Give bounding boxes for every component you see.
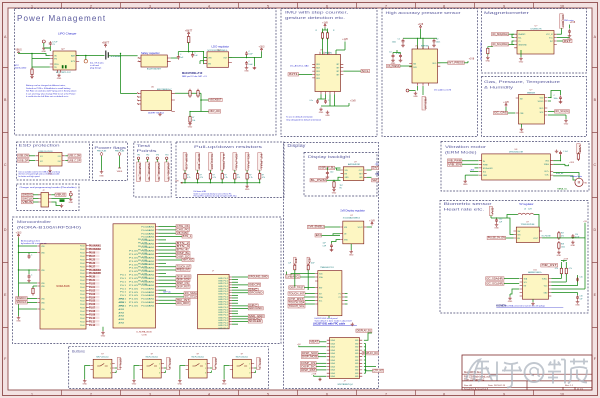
svg-text:I2C address 0x76: I2C address 0x76 bbox=[434, 89, 452, 92]
hier label I2C_SDA(x) bbox=[184, 292, 199, 295]
pins button left bbox=[140, 366, 143, 370]
svg-text:Heart rate etc.: Heart rate etc. bbox=[444, 207, 485, 212]
section box microcontroller bbox=[13, 217, 282, 344]
svg-text:Default on PCB is 500mA due to: Default on PCB is 500mA due to small bat… bbox=[26, 87, 71, 90]
svg-text:P0.04: P0.04 bbox=[80, 253, 84, 255]
chip U7 magnetometer bbox=[517, 31, 554, 55]
svg-text:1: 1 bbox=[31, 4, 33, 8]
svg-text:USB_C_DM: USB_C_DM bbox=[69, 154, 81, 158]
svg-text:SYS: SYS bbox=[71, 61, 76, 63]
wire header bottom bend bbox=[51, 202, 60, 206]
pins hr right bbox=[549, 279, 552, 297]
wire drv out to motor bbox=[553, 176, 575, 180]
svg-text:3: 3 bbox=[149, 392, 151, 396]
svg-text:I2C_GAS: I2C_GAS bbox=[494, 111, 507, 115]
wire gauge down bbox=[188, 42, 190, 51]
svg-text:DRV2605LDGR: DRV2605LDGR bbox=[509, 151, 524, 153]
wire battery to safety cap bbox=[108, 55, 137, 57]
svg-text:GND: GND bbox=[519, 132, 524, 134]
svg-text:9: 9 bbox=[503, 4, 505, 8]
chip J2 display FPC connector bbox=[330, 338, 360, 379]
ground button S1 bbox=[83, 379, 87, 382]
svg-text:+1V8: +1V8 bbox=[563, 258, 569, 260]
capacitor C6 10uF bbox=[245, 51, 248, 56]
watermark glyph hu bbox=[502, 363, 522, 388]
svg-text:P0.12/A: P0.12/A bbox=[138, 262, 148, 265]
ground esd bbox=[48, 169, 52, 172]
vpill pressure int bbox=[422, 97, 426, 111]
ground imu 1 bbox=[319, 108, 323, 111]
svg-text:SWDIO_TP: SWDIO_TP bbox=[138, 163, 142, 181]
resistor vib top right bbox=[577, 144, 580, 154]
svg-text:4.7k: 4.7k bbox=[555, 268, 558, 270]
svg-text:P1.08: P1.08 bbox=[89, 311, 96, 313]
svg-text:PRG: PRG bbox=[54, 64, 59, 66]
resistor pullup R16 bbox=[259, 170, 261, 174]
svg-text:DNF carrier: DNF carrier bbox=[564, 19, 574, 22]
svg-text:R5: R5 bbox=[340, 187, 342, 189]
svg-text:P0.27: P0.27 bbox=[89, 266, 96, 268]
svg-text:SDA_PULL: SDA_PULL bbox=[234, 154, 238, 170]
hier label GROUND_SWD bbox=[248, 275, 268, 278]
svg-text:C2: C2 bbox=[436, 39, 438, 41]
svg-text:3: 3 bbox=[205, 372, 206, 374]
svg-text:P0.29/AIN5: P0.29/AIN5 bbox=[89, 272, 102, 275]
svg-text:7: 7 bbox=[385, 392, 387, 396]
svg-text:10uF: 10uF bbox=[311, 263, 315, 265]
svg-text:P1.05: P1.05 bbox=[129, 292, 138, 294]
wire mag drdy down bbox=[561, 28, 563, 34]
svg-text:DISP_DC: DISP_DC bbox=[197, 154, 201, 170]
hier label DISP_DC bbox=[301, 365, 317, 368]
pins charger right bbox=[76, 56, 79, 62]
svg-text:P1.05: P1.05 bbox=[129, 302, 138, 304]
wire header right vbus bbox=[51, 194, 55, 196]
svg-text:SCL: SCL bbox=[319, 301, 322, 303]
wire pressure vdd stubs bbox=[417, 38, 419, 49]
hier label esd right 2 bbox=[65, 160, 68, 162]
hier label HR_INT bbox=[176, 298, 190, 301]
testpoint TP near charger bbox=[42, 40, 45, 43]
svg-text:P1.01: P1.01 bbox=[89, 287, 96, 289]
svg-text:AIN3: AIN3 bbox=[119, 322, 125, 325]
svg-text:GND P0.2: GND P0.2 bbox=[218, 302, 228, 304]
svg-text:P0.04: P0.04 bbox=[80, 259, 84, 261]
svg-text:P0.12/A: P0.12/A bbox=[138, 249, 148, 252]
svg-text:P0.04: P0.04 bbox=[80, 315, 84, 317]
hier label mag int bbox=[557, 40, 563, 42]
button symbol bbox=[237, 364, 248, 367]
svg-text:1: 1 bbox=[110, 363, 111, 365]
svg-text:P0.12/A: P0.12/A bbox=[138, 252, 148, 255]
svg-text:4.7k: 4.7k bbox=[262, 177, 265, 179]
battery gauge element bbox=[187, 37, 190, 43]
wire gas right loop top bbox=[548, 91, 561, 98]
capacitor C14 bio bbox=[571, 234, 574, 239]
pins hr left bbox=[520, 279, 523, 297]
svg-text:Vibration Motor: Vibration Motor bbox=[570, 175, 583, 178]
svg-text:P0.26: P0.26 bbox=[89, 263, 96, 265]
pins esd bottom bbox=[49, 166, 51, 169]
wire dispreg out bbox=[367, 226, 372, 228]
capacitor C3 1uF bbox=[177, 55, 180, 60]
pins button left bbox=[90, 366, 93, 370]
hier label I2C_SCL bio bbox=[486, 282, 504, 285]
svg-text:GROUND: GROUND bbox=[249, 290, 263, 294]
svg-text:CS_PRESS: CS_PRESS bbox=[387, 64, 399, 68]
svg-text:VIB_PWM: VIB_PWM bbox=[448, 158, 462, 162]
svg-text:AW9364DNR: AW9364DNR bbox=[348, 163, 360, 166]
wire button left down bbox=[134, 366, 140, 380]
hier label PULSELED bbox=[487, 236, 506, 239]
watermark glyph zhi bbox=[476, 362, 497, 382]
svg-text:Battery can be charged at diff: Battery can be charged at different rate… bbox=[26, 84, 66, 87]
capacitor pressure left C4 bbox=[392, 54, 395, 59]
pins button right bbox=[251, 364, 254, 373]
wire pullup drop bbox=[184, 179, 186, 183]
svg-text:P1.05: P1.05 bbox=[89, 301, 96, 303]
hier label fpc VBAT bbox=[309, 340, 319, 343]
resistor backlight R5 bbox=[333, 182, 335, 187]
svg-text:C12: C12 bbox=[499, 219, 502, 221]
chip U11 display regulator bbox=[343, 221, 364, 244]
svg-text:+1V8: +1V8 bbox=[350, 100, 356, 102]
svg-text:8: 8 bbox=[443, 4, 445, 8]
wire debug SND_GND bbox=[232, 315, 248, 317]
svg-text:DISP_MOSI: DISP_MOSI bbox=[302, 355, 317, 359]
svg-text:GND: GND bbox=[101, 336, 106, 338]
svg-text:P0.12/A: P0.12/A bbox=[138, 266, 148, 269]
svg-text:P1.05: P1.05 bbox=[129, 251, 138, 253]
pins gas right bbox=[545, 98, 548, 116]
resistor pullup R14 bbox=[234, 170, 236, 174]
hier label CHG_OK bbox=[176, 225, 190, 228]
svg-text:P0.04/AIN1: P0.04/AIN1 bbox=[141, 294, 154, 297]
svg-text:D: D bbox=[593, 228, 596, 232]
svg-text:10: 10 bbox=[560, 4, 564, 8]
hier label GROUND bbox=[248, 307, 263, 310]
wire rail branch down to buck bbox=[120, 54, 122, 94]
ground button S4 bbox=[222, 379, 226, 382]
svg-text:GND: GND bbox=[245, 189, 250, 191]
svg-text:SDO: SDO bbox=[539, 108, 543, 110]
svg-text:NRF pin DV die CAT + LV: NRF pin DV die CAT + LV bbox=[182, 75, 208, 78]
svg-text:C1: C1 bbox=[518, 41, 520, 43]
power +1V8 imu top bbox=[324, 24, 326, 28]
svg-text:SW-Pushbutton: SW-Pushbutton bbox=[236, 355, 249, 358]
svg-text:To use in default orientation: To use in default orientation bbox=[286, 116, 314, 119]
wire button right bbox=[115, 367, 118, 369]
svg-text:P1.05: P1.05 bbox=[129, 261, 138, 263]
ground button S3 bbox=[178, 379, 182, 382]
pins pressure left bbox=[409, 64, 412, 67]
svg-text:GND P0.2: GND P0.2 bbox=[218, 304, 228, 306]
hier label DISP_SCK bbox=[302, 352, 319, 355]
ground under NTC bbox=[30, 75, 34, 78]
svg-text:IO3: IO3 bbox=[58, 156, 61, 158]
svg-text:GND: GND bbox=[332, 192, 337, 194]
svg-text:P1.02: P1.02 bbox=[89, 290, 96, 292]
button symbol bbox=[97, 364, 108, 367]
svg-text:P0.04: P0.04 bbox=[80, 294, 84, 296]
svg-text:P0.04: P0.04 bbox=[80, 318, 84, 320]
hier label DISP_MOSI bbox=[302, 355, 319, 358]
wire +5V rail right bbox=[573, 223, 585, 238]
svg-text:5V regulator: 5V regulator bbox=[519, 202, 533, 206]
pins button left bbox=[230, 366, 233, 370]
wire touch vdd from left bbox=[286, 272, 288, 278]
svg-text:CON: CON bbox=[142, 334, 147, 336]
svg-text:4.7k: 4.7k bbox=[224, 177, 227, 179]
svg-text:I2C_ACCEL1_SA0: I2C_ACCEL1_SA0 bbox=[290, 65, 309, 68]
vpill button BTN_2 bbox=[167, 358, 170, 370]
svg-text:(ERM Mode): (ERM Mode) bbox=[445, 150, 477, 155]
svg-text:100n: 100n bbox=[554, 98, 558, 100]
svg-text:AIN3: AIN3 bbox=[119, 315, 125, 318]
svg-text:Power flags: Power flags bbox=[94, 146, 126, 150]
svg-text:LDO regulator: LDO regulator bbox=[212, 45, 230, 49]
capacitor gauge C bbox=[191, 53, 194, 58]
power flag 2 vbus bbox=[118, 167, 121, 169]
title block outline bbox=[462, 355, 592, 390]
svg-text:2: 2 bbox=[249, 368, 250, 370]
hier label DISPLAY_BL bbox=[319, 166, 335, 169]
svg-text:AIN3: AIN3 bbox=[119, 301, 125, 304]
ground C14 bbox=[571, 241, 575, 244]
ground buck bbox=[158, 113, 162, 116]
svg-text:P0.04: P0.04 bbox=[80, 301, 84, 303]
power +3V3 out bbox=[260, 48, 262, 52]
svg-text:P0.1: P0.1 bbox=[120, 295, 126, 297]
pins gas left bbox=[516, 98, 519, 113]
ground backlight R bbox=[332, 188, 336, 191]
svg-text:P1.06: P1.06 bbox=[89, 304, 96, 306]
svg-text:P0.1: P0.1 bbox=[120, 278, 126, 280]
hier label I2C_SCL(x) bbox=[184, 295, 199, 298]
hier label VIB_PWM bbox=[176, 231, 188, 234]
hier label BTN_2 bbox=[176, 241, 190, 244]
svg-text:MAX17048G+T10: MAX17048G+T10 bbox=[182, 72, 203, 75]
svg-text:GND: GND bbox=[82, 384, 87, 386]
section box ESD protection bbox=[17, 142, 90, 180]
wire debug SNDIO bbox=[232, 318, 248, 320]
hier label header VBUS right bbox=[55, 193, 66, 196]
svg-text:2: 2 bbox=[110, 368, 111, 370]
svg-text:GND P0.2: GND P0.2 bbox=[218, 317, 228, 319]
svg-text:VBUS: VBUS bbox=[56, 193, 66, 197]
svg-text:Power Management: Power Management bbox=[17, 14, 106, 23]
svg-text:+1V8: +1V8 bbox=[342, 39, 348, 41]
resistor R1 imu pullup bbox=[321, 33, 323, 38]
svg-text:WS27B888JYQ4: WS27B888JYQ4 bbox=[337, 384, 353, 386]
hier label SNDIO bbox=[248, 317, 261, 320]
hier label fpc right CTP bbox=[366, 370, 373, 372]
wire pullup drop bbox=[259, 179, 261, 183]
svg-text:4: 4 bbox=[208, 4, 210, 8]
svg-text:1V8(ADC): 1V8(ADC) bbox=[286, 274, 299, 278]
capacitor dispreg bbox=[330, 243, 333, 248]
wire bio top bbox=[490, 216, 492, 219]
power +1V8 gas bbox=[505, 103, 507, 107]
svg-text:OUT-: OUT- bbox=[545, 175, 550, 177]
svg-text:6: 6 bbox=[326, 392, 328, 396]
wire touch right pins bbox=[345, 293, 348, 295]
svg-text:Safety capacitor: Safety capacitor bbox=[141, 51, 160, 55]
vpill button BTN_4 bbox=[257, 358, 260, 370]
wire pressure top rail bbox=[403, 37, 437, 39]
wire button right bbox=[164, 367, 167, 369]
svg-text:Gas, Pressure, Temperature: Gas, Pressure, Temperature bbox=[484, 79, 561, 84]
svg-text:P0.12/A: P0.12/A bbox=[138, 283, 148, 286]
wire debug GROUND_SWD bbox=[232, 276, 248, 278]
svg-text:it can and may also change R10: it can and may also change R10 to set a … bbox=[26, 92, 76, 95]
svg-text:C: C bbox=[593, 163, 596, 167]
chip U8 gas BME688 bbox=[519, 95, 545, 125]
svg-text:P0.04/AIN1: P0.04/AIN1 bbox=[141, 301, 154, 304]
svg-text:P0.04: P0.04 bbox=[80, 297, 84, 299]
svg-text:DISPLAY_BL: DISPLAY_BL bbox=[357, 329, 372, 333]
hier label GROUND bbox=[248, 291, 263, 294]
svg-text:1: 1 bbox=[249, 363, 250, 365]
svg-text:ERM_M+: ERM_M+ bbox=[556, 173, 564, 175]
svg-text:1V8 Display regulator: 1V8 Display regulator bbox=[340, 209, 365, 213]
hier label CHG_PG bbox=[176, 228, 190, 231]
svg-text:P0.04: P0.04 bbox=[80, 266, 84, 268]
svg-text:bat, OK if pins: bat, OK if pins bbox=[90, 62, 105, 65]
svg-text:P1.05: P1.05 bbox=[129, 285, 138, 287]
wire backlight en bbox=[327, 179, 341, 181]
svg-text:P0.12/A: P0.12/A bbox=[138, 242, 148, 245]
hier label imu right bbox=[343, 70, 361, 72]
svg-text:P0.1: P0.1 bbox=[120, 288, 126, 290]
svg-text:4.7k: 4.7k bbox=[212, 177, 215, 179]
vpill pullup INT_PULL bbox=[258, 153, 262, 171]
title block row lines bbox=[462, 374, 592, 390]
pins fpc right bbox=[359, 340, 362, 376]
svg-text:P1.05: P1.05 bbox=[129, 288, 138, 290]
svg-text:C15: C15 bbox=[580, 277, 583, 279]
svg-text:0.1u: 0.1u bbox=[310, 100, 314, 102]
capacitor drv right bbox=[559, 151, 562, 156]
svg-text:P0.04/AIN1: P0.04/AIN1 bbox=[141, 298, 154, 301]
svg-text:P0.04: P0.04 bbox=[80, 256, 84, 258]
svg-text:P0.1: P0.1 bbox=[120, 275, 126, 277]
wire nora map DISP_CS bbox=[158, 282, 176, 284]
svg-text:VOUT: VOUT bbox=[533, 238, 538, 240]
hier label DISPLAY_DC bbox=[310, 179, 327, 182]
chip U10 backlight driver bbox=[343, 167, 364, 181]
svg-text:5V: 5V bbox=[491, 208, 495, 215]
svg-text:9: 9 bbox=[503, 392, 505, 396]
svg-text:EN Sda/SCl: EN Sda/SCl bbox=[483, 168, 493, 170]
svg-text:CHG_PROG: CHG_PROG bbox=[222, 154, 226, 170]
ground vib left bbox=[464, 175, 466, 179]
pins nora map right bbox=[156, 227, 159, 304]
svg-text:Chip designed for default orie: Chip designed for default orientation bbox=[286, 118, 322, 121]
frame column ticks bbox=[62, 3, 534, 396]
svg-text:Rev: nRF53 Dev: Rev: nRF53 Dev bbox=[464, 372, 482, 374]
capacitor mcu c2 bbox=[28, 274, 31, 279]
wire button right stub2 bbox=[115, 372, 117, 374]
wire mag left bends bbox=[512, 34, 514, 37]
wire button left down bbox=[224, 366, 230, 380]
svg-text:P0.12/A: P0.12/A bbox=[138, 279, 148, 282]
resistor pullup R10 bbox=[184, 170, 186, 174]
wire nora map PRESS_INT bbox=[158, 269, 176, 271]
pins fpc left bbox=[327, 340, 330, 376]
svg-text:Charger and programming header: Charger and programming header (Placehol… bbox=[20, 186, 78, 189]
svg-text:1: 1 bbox=[31, 392, 33, 396]
watermark glyph cui bbox=[548, 360, 565, 384]
svg-text:1: 1 bbox=[159, 363, 160, 365]
svg-text:+1V8: +1V8 bbox=[311, 373, 317, 375]
capacitor pressure left C3 bbox=[399, 54, 402, 59]
svg-text:4.7k: 4.7k bbox=[569, 268, 572, 270]
vpill button BTN_3 bbox=[212, 358, 215, 370]
svg-text:TOUCH_RST: TOUCH_RST bbox=[210, 154, 214, 170]
capacitor pressure C1 top bbox=[402, 39, 405, 44]
svg-text:GND P0.2: GND P0.2 bbox=[218, 325, 228, 327]
svg-text:P2: P2 bbox=[339, 297, 341, 299]
wire nora map TOUCH_INT bbox=[158, 266, 176, 268]
pins touch left bbox=[315, 274, 318, 305]
svg-text:GND: GND bbox=[571, 245, 576, 247]
hier label BTN_3 bbox=[176, 245, 190, 248]
resistor R8 bbox=[197, 91, 199, 96]
power flag 1 gnd bbox=[100, 170, 104, 173]
svg-text:3: 3 bbox=[159, 372, 160, 374]
svg-text:GND: GND bbox=[519, 62, 524, 64]
ground under charger bbox=[57, 74, 61, 77]
chip U5 buck boost bbox=[141, 91, 172, 111]
resistor pullup R13 bbox=[221, 170, 223, 174]
chip J1 header bbox=[41, 193, 49, 208]
hier label VBAT_ADC bbox=[182, 258, 194, 261]
svg-text:P0.04/AIN1: P0.04/AIN1 bbox=[141, 305, 154, 308]
section box vibration motor bbox=[441, 142, 589, 192]
frame row ticks bbox=[3, 68, 598, 328]
ground mcu caps bbox=[27, 279, 31, 282]
svg-text:Id: 1/1: Id: 1/1 bbox=[577, 389, 584, 391]
pins backlight left bbox=[341, 170, 344, 177]
hier label mag scl bbox=[492, 43, 509, 46]
svg-text:2: 2 bbox=[205, 368, 206, 370]
section box pullup resistors bbox=[176, 142, 284, 198]
svg-text:DISP_TRST: DISP_TRST bbox=[290, 285, 304, 289]
wire fpc bl right top bbox=[364, 333, 372, 340]
svg-text:P0.12/A: P0.12/A bbox=[138, 276, 148, 279]
svg-text:R?: R? bbox=[224, 174, 226, 176]
pins button right bbox=[161, 364, 164, 373]
wire pullup drop bbox=[234, 179, 236, 183]
svg-text:plug design: plug design bbox=[90, 68, 102, 70]
svg-text:M: M bbox=[578, 181, 581, 185]
svg-text:P0.12/A: P0.12/A bbox=[138, 273, 148, 276]
svg-text:NORA-B106: NORA-B106 bbox=[56, 285, 70, 288]
wire nora map BTN_3 bbox=[158, 246, 176, 248]
power label +BATT bbox=[104, 44, 106, 48]
pins header left bbox=[38, 195, 41, 202]
svg-text:TMA5340CT01: TMA5340CT01 bbox=[320, 266, 334, 269]
pins touch right bbox=[342, 294, 345, 305]
svg-text:GND: GND bbox=[486, 60, 491, 62]
svg-text:(NORA-B106/nRF5340): (NORA-B106/nRF5340) bbox=[17, 225, 82, 230]
svg-text:Display backlight: Display backlight bbox=[308, 155, 350, 159]
svg-text:GND: GND bbox=[132, 384, 137, 386]
wire nora map DISP_MOSI bbox=[158, 276, 176, 278]
svg-text:VBAT: VBAT bbox=[310, 340, 319, 344]
hier label VBCKBST bbox=[209, 98, 223, 101]
